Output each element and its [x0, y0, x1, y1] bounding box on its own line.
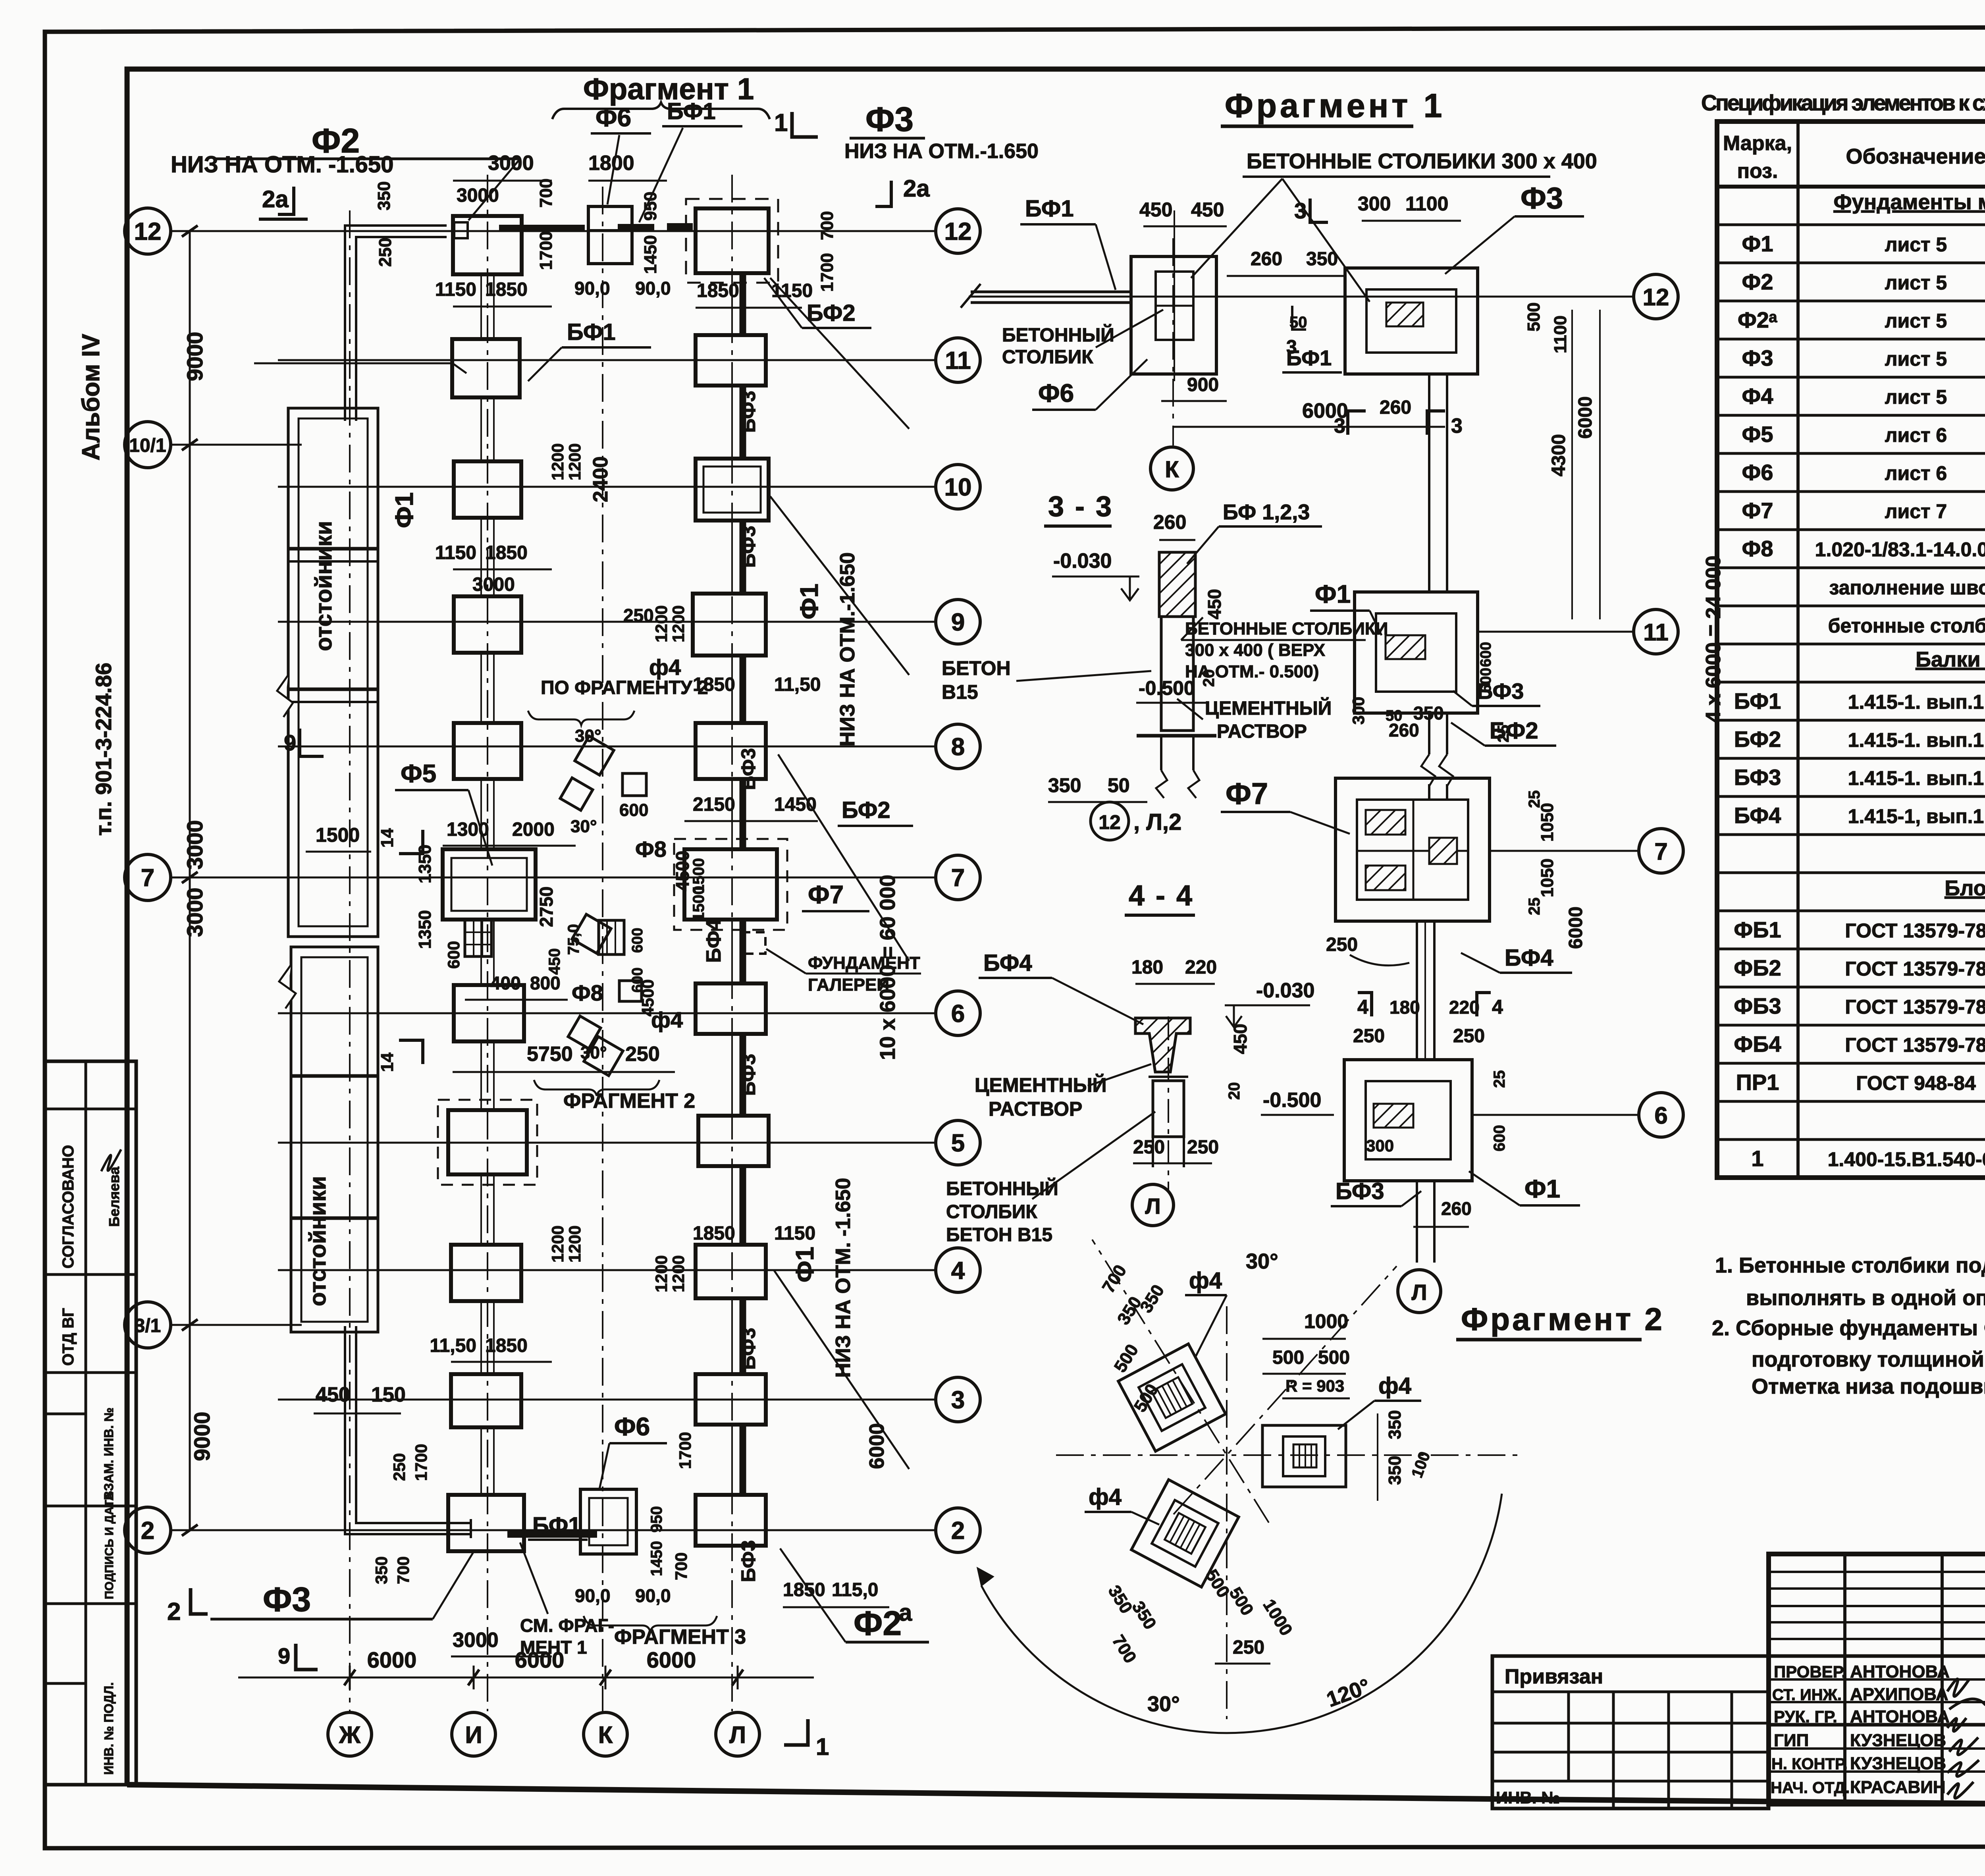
svg-text:бетонные столбы: бетонные столбы [1828, 615, 1985, 637]
svg-text:3000: 3000 [182, 820, 207, 870]
svg-text:220: 220 [1185, 957, 1217, 978]
svg-text:РАСТВОР: РАСТВОР [989, 1098, 1082, 1120]
svg-text:Ф6: Ф6 [595, 103, 631, 132]
svg-text:350: 350 [374, 181, 394, 210]
beams on axis 12 [499, 225, 585, 232]
svg-text:12: 12 [1098, 811, 1121, 833]
svg-text:9000: 9000 [182, 332, 207, 381]
svg-text:12: 12 [134, 218, 162, 245]
svg-text:Ж: Ж [339, 1722, 361, 1748]
svg-text:Ф4: Ф4 [1742, 384, 1773, 409]
margin stamp boxes [45, 1061, 136, 1785]
svg-text:1150: 1150 [771, 280, 813, 301]
svg-text:БЕТОННЫЕ СТОЛБИКИ: БЕТОННЫЕ СТОЛБИКИ [1185, 619, 1388, 638]
svg-text:1350: 1350 [415, 844, 435, 883]
svg-text:СТ. ИНЖ.: СТ. ИНЖ. [1772, 1686, 1842, 1704]
svg-text:1.415-1. вып.1: 1.415-1. вып.1 [1848, 691, 1984, 713]
svg-text:2400: 2400 [589, 456, 612, 502]
svg-text:Ф5: Ф5 [401, 759, 436, 788]
foundation Ф1 plan [1355, 592, 1478, 713]
svg-text:180: 180 [1131, 957, 1163, 978]
svg-text:6000: 6000 [865, 1423, 888, 1469]
svg-text:НИЗ НА ОТМ.-1.650: НИЗ НА ОТМ.-1.650 [844, 140, 1039, 163]
foundation on axis Л, grid 6 [696, 983, 766, 1034]
svg-text:т.п. 901-3-224.86: т.п. 901-3-224.86 [91, 663, 116, 836]
big 120 degree arc [981, 1494, 1502, 1733]
svg-text:9: 9 [278, 1643, 290, 1668]
svg-text:20: 20 [1226, 1082, 1243, 1100]
svg-text:1850: 1850 [485, 542, 528, 563]
foundation on axis Л, grid 8 [696, 723, 766, 779]
signature scribbles [1947, 1679, 1985, 1798]
svg-text:Балки фундаментные: Балки фундаментные [1916, 648, 1985, 671]
svg-text:лист 5: лист 5 [1885, 310, 1947, 332]
foundation on axis Л, grid 7 [684, 849, 777, 920]
svg-text:ПО ФРАГМЕНТУ 2: ПО ФРАГМЕНТУ 2 [541, 677, 708, 698]
grid circle 6 right [936, 991, 980, 1035]
foundation on axis И, grid 5 [448, 1110, 527, 1174]
svg-text:450: 450 [1139, 199, 1172, 221]
svg-text:450: 450 [1204, 589, 1225, 619]
svg-text:ФБ3: ФБ3 [1734, 993, 1781, 1018]
svg-text:3000: 3000 [488, 152, 534, 175]
svg-text:5: 5 [951, 1130, 965, 1157]
svg-text:ГОСТ 13579-78: ГОСТ 13579-78 [1845, 1034, 1985, 1056]
svg-text:лист 5: лист 5 [1885, 233, 1947, 256]
svg-text:350: 350 [1048, 774, 1081, 796]
svg-text:БЕТОН В15: БЕТОН В15 [946, 1224, 1052, 1246]
column circle К [584, 1712, 627, 1756]
svg-text:220: 220 [1449, 997, 1480, 1018]
svg-text:БЕТОННЫЙ: БЕТОННЫЙ [1002, 324, 1114, 346]
small foundation Ф8 at axis И [465, 920, 491, 956]
svg-text:БФ1: БФ1 [1286, 346, 1332, 370]
svg-text:а: а [899, 1599, 912, 1626]
svg-text:Л: Л [1411, 1280, 1427, 1305]
svg-text:260: 260 [1380, 397, 1411, 418]
svg-text:БФ4: БФ4 [1734, 803, 1781, 828]
svg-text:НАЧ. ОТД.: НАЧ. ОТД. [1771, 1779, 1850, 1797]
svg-text:1350: 1350 [415, 910, 435, 949]
foundation on axis Л, grid 4 [696, 1245, 766, 1298]
svg-text:лист 6: лист 6 [1885, 462, 1947, 484]
grid circle 10/1 left [125, 422, 171, 468]
centerlines [1056, 1454, 1521, 1456]
svg-text:150: 150 [371, 1383, 406, 1406]
svg-text:300: 300 [1349, 697, 1368, 725]
svg-text:-0.030: -0.030 [1053, 549, 1112, 573]
foundation on axis И, grid 3 [451, 1374, 521, 1427]
svg-text:БФ1: БФ1 [1734, 688, 1781, 713]
svg-text:350: 350 [1306, 249, 1338, 270]
svg-text:3000: 3000 [472, 574, 515, 595]
svg-text:2а: 2а [262, 186, 289, 212]
svg-text:ПР1: ПР1 [1736, 1070, 1779, 1095]
svg-text:ГОСТ 13579-78: ГОСТ 13579-78 [1845, 920, 1985, 942]
svg-text:4: 4 [951, 1257, 965, 1284]
section mark 1 top [792, 112, 818, 137]
bottom dimension line [238, 1677, 814, 1679]
svg-text:14: 14 [378, 1053, 397, 1072]
svg-text:75,0: 75,0 [565, 924, 582, 955]
svg-text:1500: 1500 [316, 824, 360, 846]
foundation on axis И, grid 11 [452, 339, 520, 397]
svg-text:БФ3: БФ3 [737, 1540, 759, 1582]
svg-text:700: 700 [817, 211, 837, 240]
svg-text:90,0: 90,0 [635, 1585, 671, 1606]
column below [1153, 1081, 1184, 1137]
foundation on axis И, grid 2 [448, 1495, 524, 1551]
bound stamp small table [1492, 1656, 1769, 1809]
svg-text:ФРАГМЕНТ 2: ФРАГМЕНТ 2 [563, 1089, 695, 1112]
svg-text:СТОЛБИК: СТОЛБИК [946, 1201, 1037, 1222]
svg-text:Ф8: Ф8 [635, 837, 667, 862]
column circle Ж [328, 1712, 372, 1756]
svg-text:КУЗНЕЦОВ: КУЗНЕЦОВ [1850, 1754, 1946, 1773]
svg-text:6000: 6000 [367, 1647, 417, 1672]
svg-text:1200: 1200 [565, 443, 584, 480]
svg-text:4300: 4300 [1548, 434, 1569, 476]
column centerline x=1518 [602, 187, 603, 1711]
svg-text:НА ОТМ.- 0.500): НА ОТМ.- 0.500) [1185, 662, 1319, 681]
svg-text:Фрагмент 2: Фрагмент 2 [1461, 1301, 1665, 1337]
svg-text:700: 700 [394, 1556, 412, 1584]
svg-text:НИЗ НА ОТМ.-1.650: НИЗ НА ОТМ.-1.650 [836, 552, 859, 746]
svg-text:260: 260 [1389, 720, 1419, 740]
svg-text:1200: 1200 [565, 1226, 584, 1263]
svg-text:700: 700 [672, 1552, 690, 1580]
svg-text:Ф2: Ф2 [1742, 269, 1773, 294]
section mark 9 bottom [296, 1644, 318, 1670]
drawing frame [127, 69, 1985, 913]
svg-text:90,0: 90,0 [635, 278, 671, 299]
svg-text:КРАСАВИН: КРАСАВИН [1850, 1778, 1946, 1797]
beam into Ф6 [971, 291, 1131, 293]
grid circle 3 right [936, 1377, 980, 1422]
svg-text:6000: 6000 [647, 1647, 696, 1672]
svg-text:лист 5: лист 5 [1885, 272, 1947, 294]
foundation on axis И, grid 7 [443, 849, 536, 920]
svg-text:ОТД ВГ: ОТД ВГ [60, 1308, 77, 1366]
svg-text:1500: 1500 [690, 886, 707, 921]
svg-text:БФ1: БФ1 [1025, 196, 1074, 222]
svg-text:800: 800 [530, 973, 561, 993]
svg-text:Спецификация элементов к сх: Спецификация элементов к схеме расположе… [1701, 90, 1985, 115]
svg-text:ФБ2: ФБ2 [1734, 955, 1781, 980]
grid circle 2 left [125, 1507, 171, 1553]
section marks 3 [1348, 411, 1366, 435]
svg-text:250: 250 [1133, 1137, 1165, 1158]
retaining wall top [345, 226, 447, 421]
grid circle 12 right [936, 209, 980, 253]
svg-text:ФРАГМЕНТ 3: ФРАГМЕНТ 3 [614, 1625, 746, 1648]
svg-text:7: 7 [1654, 838, 1667, 865]
svg-text:R = 903: R = 903 [1285, 1377, 1344, 1395]
svg-text:Ф1: Ф1 [390, 492, 418, 528]
svg-text:1450: 1450 [648, 1541, 665, 1576]
svg-text:ЦЕМЕНТНЫЙ: ЦЕМЕНТНЫЙ [1205, 697, 1332, 719]
svg-text:БЕТОН: БЕТОН [942, 657, 1011, 679]
svg-text:Н. КОНТР.: Н. КОНТР. [1771, 1755, 1848, 1773]
svg-text:НИЗ НА ОТМ. -1.650: НИЗ НА ОТМ. -1.650 [832, 1178, 855, 1378]
svg-text:1.020-1/83.1-14.0.0-01: 1.020-1/83.1-14.0.0-01 [1815, 538, 1985, 561]
svg-text:Фрагмент 1: Фрагмент 1 [1225, 87, 1445, 124]
grid circle 12 left [125, 208, 171, 254]
settling tank 1 (отстойники) [288, 408, 378, 937]
svg-text:9: 9 [284, 730, 296, 755]
svg-text:250: 250 [1353, 1026, 1385, 1047]
svg-text:5750: 5750 [527, 1043, 573, 1066]
svg-text:Фундаменты монолитные и сборны: Фундаменты монолитные и сборные [1833, 190, 1985, 214]
svg-text:250: 250 [1326, 934, 1358, 955]
svg-text:БФ3: БФ3 [737, 1054, 759, 1096]
column circle И [452, 1712, 495, 1756]
svg-text:1100: 1100 [1551, 316, 1570, 353]
foundation on axis И, grid 12 [453, 216, 522, 274]
svg-text:400: 400 [490, 973, 521, 993]
svg-text:1300: 1300 [447, 819, 489, 840]
svg-text:30°: 30° [575, 726, 601, 746]
3-3 column with hatch [1159, 552, 1195, 617]
foundation Ф1 lower plan [1344, 1060, 1472, 1181]
svg-text:ГОСТ 13579-78: ГОСТ 13579-78 [1845, 958, 1985, 980]
foundation on axis Л, grid 2 [696, 1495, 766, 1546]
foundation Ф7 plan [1336, 778, 1490, 921]
beam Ф3 to Ф1 [1428, 374, 1430, 592]
svg-text:Л: Л [1145, 1193, 1160, 1219]
svg-text:11: 11 [1643, 619, 1668, 646]
svg-text:лист 6: лист 6 [1885, 424, 1947, 446]
svg-text:КУЗНЕЦОВ: КУЗНЕЦОВ [1850, 1731, 1946, 1750]
svg-text:9000: 9000 [189, 1411, 214, 1461]
foundation on axis Л, grid 9 [693, 594, 766, 656]
svg-text:250: 250 [1187, 1137, 1219, 1158]
grid axis 2 line [171, 1529, 936, 1531]
svg-text:10: 10 [944, 474, 972, 501]
svg-text:25: 25 [1491, 1070, 1508, 1088]
grid axis 4 line [278, 1269, 936, 1271]
svg-text:1000: 1000 [1304, 1310, 1348, 1332]
svg-text:11,50: 11,50 [774, 674, 821, 695]
svg-text:1150: 1150 [774, 1223, 815, 1244]
svg-text:90,0: 90,0 [575, 1585, 611, 1606]
svg-text:250: 250 [1233, 1637, 1264, 1658]
svg-text:В15: В15 [942, 681, 978, 703]
svg-text:350: 350 [1385, 1456, 1405, 1485]
svg-text:1200: 1200 [652, 605, 671, 642]
svg-text:250: 250 [623, 605, 654, 626]
svg-text:БФ3: БФ3 [1477, 679, 1524, 704]
svg-text:Альбом IV: Альбом IV [77, 334, 105, 461]
svg-text:600: 600 [629, 928, 646, 953]
svg-text:3: 3 [951, 1386, 965, 1414]
svg-text:1. Бетонные столбики под: 1. Бетонные столбики под фундаментные ба… [1715, 1253, 1985, 1277]
rotated square Ф4 lower [1131, 1480, 1239, 1587]
svg-text:ФУНДАМЕНТ: ФУНДАМЕНТ [808, 953, 920, 973]
svg-text:7: 7 [141, 864, 154, 892]
foundation Ф3 plan [1345, 268, 1478, 374]
grid circle 4 right [936, 1248, 980, 1292]
svg-text:, Л,2: , Л,2 [1133, 809, 1181, 835]
svg-text:БФ3: БФ3 [1336, 1178, 1384, 1204]
svg-text:БФ4: БФ4 [1505, 945, 1553, 971]
grid circle 11 right [936, 338, 980, 382]
svg-text:Беляева: Беляева [106, 1166, 122, 1227]
svg-text:отстойники: отстойники [305, 1176, 331, 1306]
svg-text:ГОСТ 948-84: ГОСТ 948-84 [1856, 1072, 1976, 1094]
svg-text:1200: 1200 [652, 1255, 671, 1292]
grid circle 5 right [936, 1120, 980, 1165]
svg-text:11,50: 11,50 [430, 1335, 476, 1356]
svg-text:4 - 4: 4 - 4 [1129, 880, 1194, 912]
svg-text:11: 11 [945, 347, 971, 374]
svg-text:1: 1 [774, 109, 788, 137]
svg-text:ГОСТ 13579-78: ГОСТ 13579-78 [1845, 996, 1985, 1018]
svg-text:ф4: ф4 [1378, 1373, 1411, 1399]
svg-text:БФ3: БФ3 [737, 391, 759, 433]
4-4 T beam [1135, 1018, 1190, 1072]
svg-text:8: 8 [951, 733, 965, 761]
svg-text:90,0: 90,0 [574, 278, 610, 299]
svg-text:выполнять в одной опалубке: выполнять в одной опалубке с фундаментам… [1746, 1286, 1985, 1310]
svg-text:2: 2 [141, 1517, 154, 1544]
svg-text:450: 450 [546, 948, 563, 975]
section mark 14 marks [399, 830, 423, 854]
beam below lower Ф1 [1416, 1181, 1418, 1263]
svg-text:4: 4 [1357, 996, 1368, 1018]
svg-text:1.415-1, вып.1: 1.415-1, вып.1 [1848, 805, 1984, 827]
grid axis 9 line [278, 621, 936, 623]
svg-text:БФ4: БФ4 [983, 950, 1032, 976]
svg-text:Ф8: Ф8 [1742, 536, 1773, 561]
svg-text:6000: 6000 [1575, 396, 1596, 439]
svg-text:Ф7: Ф7 [808, 880, 844, 909]
svg-text:поз.: поз. [1737, 160, 1778, 183]
svg-text:1850: 1850 [485, 279, 528, 300]
foundation on axis И, grid 8 [454, 723, 521, 779]
column circle Л [716, 1712, 759, 1756]
svg-text:1700: 1700 [536, 231, 556, 270]
svg-text:Блоки бетонные: Блоки бетонные [1945, 876, 1985, 900]
svg-text:Ф2ᵃ: Ф2ᵃ [1738, 307, 1777, 332]
svg-text:500: 500 [1524, 303, 1544, 332]
svg-text:Л: Л [729, 1722, 746, 1748]
svg-text:Ф2: Ф2 [854, 1604, 902, 1643]
svg-text:Ф1: Ф1 [1742, 231, 1773, 256]
svg-text:25: 25 [1526, 898, 1543, 916]
svg-text:К: К [1165, 457, 1179, 482]
svg-text:РАСТВОР: РАСТВОР [1217, 721, 1307, 742]
svg-text:Ф1: Ф1 [795, 584, 823, 619]
grid axis 8 line [278, 746, 936, 748]
svg-text:ПРОВЕР.: ПРОВЕР. [1774, 1662, 1846, 1681]
beam Ф1 down with break [1428, 713, 1430, 754]
svg-text:Привязан: Привязан [1505, 1665, 1603, 1688]
svg-text:3000: 3000 [182, 887, 207, 937]
foundation on axis Л, grid 5 [698, 1116, 769, 1166]
svg-text:3: 3 [1451, 415, 1463, 438]
section mark 3 [1310, 199, 1328, 222]
svg-text:БФ4: БФ4 [702, 919, 725, 963]
svg-text:АРХИПОВА: АРХИПОВА [1850, 1685, 1948, 1704]
svg-text:600: 600 [619, 800, 648, 820]
svg-text:10/1: 10/1 [129, 435, 166, 456]
grid line 12 [969, 296, 1634, 298]
svg-text:БФ3: БФ3 [737, 748, 759, 790]
svg-text:6: 6 [1654, 1102, 1667, 1129]
svg-text:600: 600 [1491, 1125, 1508, 1151]
svg-text:лист 7: лист 7 [1885, 500, 1947, 523]
svg-text:БФ2: БФ2 [1734, 727, 1781, 752]
svg-text:300: 300 [1366, 1136, 1394, 1155]
svg-text:250: 250 [390, 1453, 409, 1481]
svg-text:Ф8: Ф8 [572, 980, 603, 1005]
grid axis 6 line [278, 1012, 936, 1014]
svg-text:1850: 1850 [485, 1335, 528, 1356]
svg-text:900: 900 [1187, 374, 1219, 395]
svg-text:260: 260 [1251, 249, 1282, 270]
svg-text:350: 350 [1385, 1410, 1405, 1439]
svg-text:БЕТОННЫЕ СТОЛБИКИ 300 х 400: БЕТОННЫЕ СТОЛБИКИ 300 х 400 [1247, 149, 1597, 173]
svg-text:БФ1: БФ1 [567, 319, 616, 345]
svg-text:БФ2: БФ2 [807, 300, 856, 326]
svg-text:1050: 1050 [1538, 858, 1557, 897]
svg-text:БЕТОННЫЙ: БЕТОННЫЙ [946, 1178, 1058, 1199]
beams on axis 2 [507, 1531, 597, 1538]
svg-text:БФ2: БФ2 [842, 797, 890, 823]
svg-text:1.415-1. вып.1: 1.415-1. вып.1 [1848, 729, 1984, 751]
svg-text:950: 950 [648, 1506, 665, 1533]
svg-text:1150: 1150 [435, 279, 476, 300]
svg-text:Ф6: Ф6 [1742, 460, 1773, 485]
svg-text:250: 250 [625, 1043, 660, 1066]
svg-text:1: 1 [816, 1733, 829, 1760]
svg-text:9: 9 [951, 609, 965, 636]
svg-text:4: 4 [1492, 996, 1503, 1018]
svg-text:250: 250 [1453, 1026, 1485, 1047]
column centerline x=1844 [731, 175, 733, 1711]
column centerline x=1228 [487, 175, 488, 1711]
svg-text:2: 2 [167, 1598, 181, 1625]
svg-text:450: 450 [316, 1383, 350, 1406]
svg-text:ф4: ф4 [1189, 1268, 1222, 1294]
vertical beams between foundations, axis Л [740, 273, 746, 335]
rotated square Ф4 upper [1118, 1344, 1226, 1451]
svg-text:-0.030: -0.030 [1256, 979, 1314, 1002]
svg-text:ФБ4: ФБ4 [1734, 1032, 1781, 1057]
svg-text:1850: 1850 [697, 280, 739, 301]
main stamp [1769, 1554, 1985, 1804]
svg-text:1700: 1700 [817, 253, 837, 292]
svg-text:Ф5: Ф5 [1742, 422, 1773, 447]
svg-text:2150: 2150 [693, 794, 735, 815]
svg-text:ЦЕМЕНТНЫЙ: ЦЕМЕНТНЫЙ [975, 1074, 1107, 1096]
svg-text:7: 7 [951, 864, 965, 892]
straight foundation square Ф4 [1262, 1425, 1346, 1487]
svg-text:6: 6 [951, 1000, 965, 1028]
svg-text:115,0: 115,0 [832, 1579, 878, 1600]
svg-text:1700: 1700 [412, 1444, 430, 1481]
svg-text:ИНВ. №: ИНВ. № [1496, 1788, 1560, 1807]
svg-text:-0.500: -0.500 [1263, 1089, 1321, 1112]
foundation on axis И, grid 9 [454, 596, 521, 653]
svg-text:БФ3: БФ3 [737, 526, 759, 568]
svg-text:30°: 30° [580, 1043, 607, 1062]
svg-text:260: 260 [1153, 511, 1186, 533]
svg-text:ф4: ф4 [651, 1007, 683, 1032]
left dim line [189, 231, 191, 1530]
foundation on axis Л, grid 11 [696, 335, 766, 386]
